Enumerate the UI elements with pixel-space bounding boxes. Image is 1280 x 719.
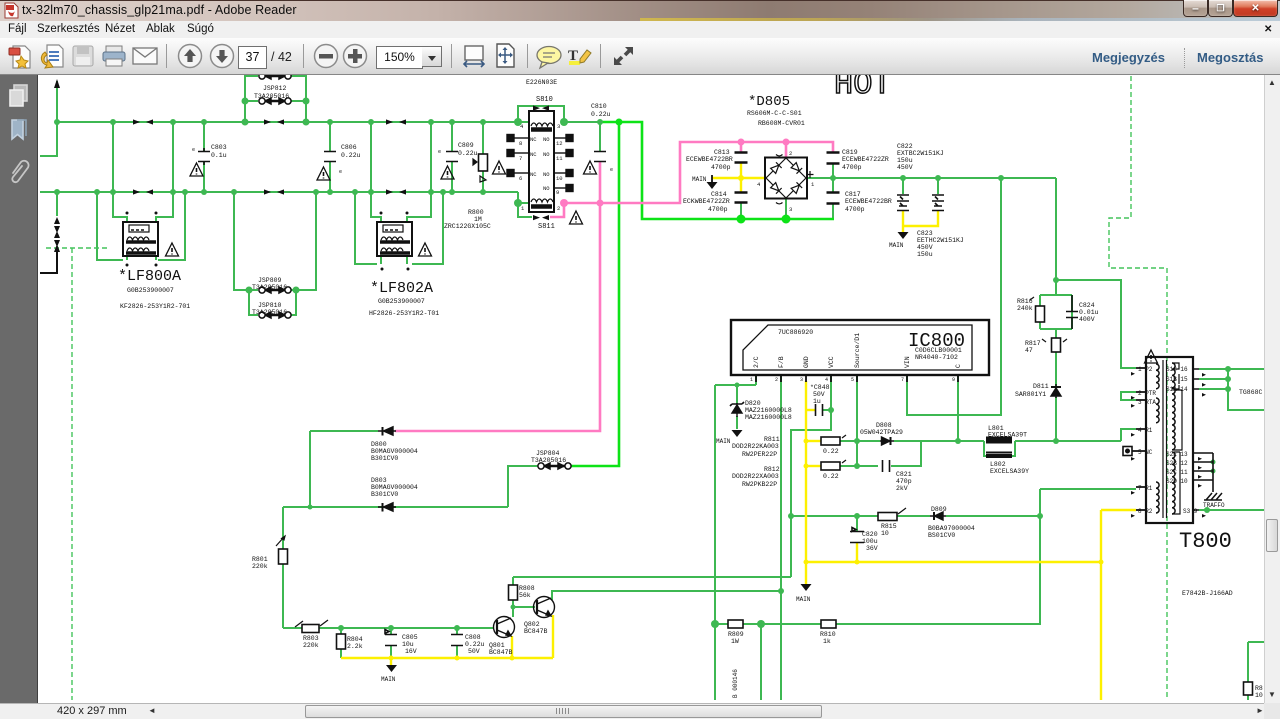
svg-text:MAIN: MAIN <box>381 676 396 683</box>
resistor R801 <box>279 549 288 564</box>
svg-text:0.22: 0.22 <box>823 473 839 480</box>
junction dots yellow <box>389 175 1104 661</box>
svg-text:S810: S810 <box>536 96 553 104</box>
wire pink C813 top leg <box>740 142 743 152</box>
svg-text:R800: R800 <box>468 209 484 216</box>
jumper JSP809 <box>259 287 291 293</box>
inductor L801 <box>986 438 1012 442</box>
svg-text:E7842B-J166AD: E7842B-J166AD <box>1182 590 1233 597</box>
svg-text:4700p: 4700p <box>711 164 731 171</box>
svg-text:JSP812: JSP812 <box>263 85 287 92</box>
svg-text:Q802: Q802 <box>524 621 540 628</box>
svg-text:9: 9 <box>952 377 955 383</box>
wire C803 leg <box>203 122 205 192</box>
wire FB feedback row <box>513 576 791 578</box>
svg-text:12: 12 <box>556 140 563 147</box>
wire VIN riser <box>907 178 1001 415</box>
svg-text:8 R2: 8 R2 <box>1138 508 1153 515</box>
svg-text:EXCELSA39Y: EXCELSA39Y <box>990 468 1029 475</box>
svg-text:JSP810: JSP810 <box>258 302 282 309</box>
svg-text:4700p: 4700p <box>842 164 862 171</box>
wire snubber row y516 <box>791 515 1040 517</box>
svg-text:0.22: 0.22 <box>823 448 839 455</box>
svg-text:7 R1: 7 R1 <box>1138 485 1153 492</box>
svg-text:3: 3 <box>557 123 560 130</box>
svg-text:C824: C824 <box>1079 302 1095 309</box>
svg-text:TRAFFO: TRAFFO <box>1203 502 1225 509</box>
jumper JSP804 <box>538 463 571 469</box>
relay S810 block <box>529 111 554 212</box>
capacitor C803 <box>198 148 210 165</box>
svg-text:ZRC122GX105C: ZRC122GX105C <box>444 223 491 230</box>
resistor R810 <box>821 620 836 628</box>
svg-text:JSP809: JSP809 <box>258 277 282 284</box>
svg-text:S2B 12: S2B 12 <box>1166 460 1188 467</box>
svg-text:C823: C823 <box>917 230 933 237</box>
svg-text:RW2PER22P: RW2PER22P <box>742 451 777 458</box>
svg-text:ECKWBE4722ZR: ECKWBE4722ZR <box>683 198 730 205</box>
wire T800 pin2/pin3 link <box>1121 392 1136 400</box>
svg-text:C0D6CLB00001: C0D6CLB00001 <box>915 347 962 354</box>
svg-text:NC: NC <box>530 171 537 178</box>
off-page black link bottom-left <box>40 250 57 273</box>
wire JSP804 to D803 net <box>508 466 538 507</box>
svg-text:1W: 1W <box>731 638 739 645</box>
svg-text:10u: 10u <box>402 641 414 648</box>
wire relay pin3 to C810 node <box>564 121 601 123</box>
svg-text:10: 10 <box>881 530 889 537</box>
IC800 pin stubs <box>756 375 958 382</box>
svg-text:2: 2 <box>775 377 778 383</box>
svg-text:1: 1 <box>811 181 815 188</box>
wire LF800A output box <box>97 192 185 260</box>
svg-text:6: 6 <box>519 175 522 182</box>
warning triangle S810 left <box>493 161 506 174</box>
wire pink relay pin2 bottom stub <box>550 203 564 217</box>
capacitor C819 <box>827 153 840 164</box>
svg-text:DOD2R22KA003: DOD2R22KA003 <box>732 443 779 450</box>
resistor R8xx bottom right <box>1244 682 1253 695</box>
wire IC pin2 F/B column <box>780 375 782 700</box>
jumper JSP810 <box>259 312 291 318</box>
svg-text:2: 2 <box>789 150 792 157</box>
filter LF800A symbol <box>123 222 158 256</box>
wire R801 column <box>282 507 284 628</box>
svg-text:C821: C821 <box>896 471 912 478</box>
svg-text:R809: R809 <box>728 631 744 638</box>
svg-text:240k: 240k <box>1017 305 1033 312</box>
svg-text:S811: S811 <box>538 223 555 231</box>
wire left feeder with top arrow <box>40 81 57 156</box>
svg-text:D820: D820 <box>745 400 761 407</box>
wire T800 sec pin15 row <box>1199 378 1228 380</box>
ground arrow MAIN (GND col) <box>801 584 812 591</box>
svg-text:50V: 50V <box>468 648 480 655</box>
resistor R800 <box>479 154 488 171</box>
wire R809/R810 row <box>715 623 821 625</box>
transformer pin tick arrows <box>1131 372 1206 518</box>
svg-text:100u: 100u <box>862 538 878 545</box>
svg-text:2: 2 <box>557 205 560 212</box>
svg-text:1k: 1k <box>823 638 831 645</box>
warning triangle C809 <box>441 166 454 179</box>
capacitor C810 <box>594 152 606 162</box>
svg-text:5 NC: 5 NC <box>1138 449 1153 456</box>
svg-text:C813: C813 <box>714 149 730 156</box>
svg-text:BC847B: BC847B <box>489 649 513 656</box>
svg-text:4: 4 <box>520 123 524 130</box>
svg-text:F/B: F/B <box>778 356 785 368</box>
svg-text:R8: R8 <box>1255 685 1263 692</box>
transformer T800 block <box>1146 357 1193 523</box>
wire C822 leg <box>902 178 904 194</box>
wire C848 right leg <box>823 409 831 411</box>
wire R803 row <box>283 628 494 658</box>
wire bridge output rail <box>808 177 1056 179</box>
svg-text:B0MAGV000004: B0MAGV000004 <box>371 484 418 491</box>
wire R808 branch <box>513 577 535 617</box>
wire C813/C814 mid legs <box>740 203 742 219</box>
svg-text:T3A205016: T3A205016 <box>252 309 287 316</box>
capacitor C814 <box>735 193 748 203</box>
svg-text:2 PTR: 2 PTR <box>1138 390 1156 397</box>
wire D820 leg <box>736 385 738 429</box>
svg-text:NC: NC <box>530 136 537 143</box>
bridge rectifier D805 <box>765 155 814 204</box>
svg-text:0.01u: 0.01u <box>1079 309 1099 316</box>
svg-text:C809: C809 <box>458 142 474 149</box>
wire C820 top leg <box>856 516 858 531</box>
svg-text:4700p: 4700p <box>708 206 728 213</box>
svg-text:S1C 16: S1C 16 <box>1166 366 1188 373</box>
wire Q802 collector riser <box>552 591 781 600</box>
svg-text:e: e <box>438 149 441 155</box>
svg-text:*C848: *C848 <box>810 384 830 391</box>
wire R816/C824 parallel box <box>1040 280 1072 338</box>
svg-text:R803: R803 <box>303 635 319 642</box>
transformer T800 windings <box>1156 360 1182 518</box>
svg-text:S3 9: S3 9 <box>1183 508 1198 515</box>
svg-text:0.22u: 0.22u <box>591 111 611 118</box>
wire IC VCC net <box>791 375 831 577</box>
transistor Q802 <box>534 597 555 618</box>
wire C806 leg <box>329 122 331 192</box>
warning triangle C803 <box>190 163 203 176</box>
wire x1040 riser <box>836 489 1040 624</box>
capacitor C820 <box>850 528 864 543</box>
svg-text:S2D 10: S2D 10 <box>1166 478 1188 485</box>
wire C819 lower leg <box>832 164 834 219</box>
svg-text:*D805: *D805 <box>748 94 790 110</box>
svg-text:400V: 400V <box>1079 316 1095 323</box>
svg-text:HOT: HOT <box>834 66 892 103</box>
svg-text:0.22u: 0.22u <box>341 152 361 159</box>
svg-text:TG868C: TG868C <box>1239 389 1263 396</box>
svg-text:BS01CV0: BS01CV0 <box>928 532 955 539</box>
svg-text:C819: C819 <box>842 149 858 156</box>
capacitor C821 <box>883 460 890 472</box>
svg-text:S1A 14: S1A 14 <box>1166 386 1188 393</box>
svg-text:3 RTA: 3 RTA <box>1138 399 1156 406</box>
ground arrow MAIN (bridge) <box>707 175 718 189</box>
svg-text:C822: C822 <box>897 143 913 150</box>
svg-text:4 R1: 4 R1 <box>1138 427 1153 434</box>
svg-text:50V: 50V <box>813 391 825 398</box>
svg-text:10: 10 <box>1255 692 1263 699</box>
svg-text:S1B 15: S1B 15 <box>1166 376 1188 383</box>
ground arrow MAIN (D820) <box>732 430 743 437</box>
svg-text:2kV: 2kV <box>896 485 908 492</box>
svg-text:2/C: 2/C <box>753 356 760 368</box>
junction dots pink <box>560 139 790 208</box>
warning triangle LF802A <box>419 243 432 256</box>
right scrollbar <box>1264 75 1280 703</box>
svg-text:1: 1 <box>521 205 525 212</box>
svg-text:47: 47 <box>1025 347 1033 354</box>
svg-text:EETHC2W151KJ: EETHC2W151KJ <box>917 237 964 244</box>
svg-text:9: 9 <box>556 189 559 196</box>
wire C823 leg <box>937 178 939 194</box>
svg-text:VIN: VIN <box>904 356 911 368</box>
transistor Q801 <box>494 617 515 638</box>
capacitor C809 <box>446 152 458 162</box>
svg-text:C806: C806 <box>341 144 357 151</box>
wire mains bus L (top) <box>57 121 529 123</box>
capacitor C806 <box>324 152 336 162</box>
resistor R815 <box>878 513 897 521</box>
svg-text:GND: GND <box>803 356 810 368</box>
svg-text:KF2826-253Y1R2-701: KF2826-253Y1R2-701 <box>120 303 190 310</box>
svg-text:B301CV0: B301CV0 <box>371 455 398 462</box>
svg-text:0.22u: 0.22u <box>458 150 478 157</box>
svg-text:S2C 11: S2C 11 <box>1166 469 1188 476</box>
svg-text:*LF802A: *LF802A <box>370 280 433 297</box>
diode D811 (vertical) <box>1051 384 1061 398</box>
wire R817 to D811 <box>1055 352 1057 441</box>
relay actuator arrows S810/S811 <box>533 106 549 221</box>
wire mains bus N (bottom) <box>40 191 518 193</box>
svg-text:R815: R815 <box>881 523 897 530</box>
svg-text:R808: R808 <box>519 585 535 592</box>
svg-text:C: C <box>955 364 962 368</box>
svg-text:EXCELSA39T: EXCELSA39T <box>988 432 1027 439</box>
capacitor C824 <box>1066 295 1078 329</box>
svg-text:470p: 470p <box>896 478 912 485</box>
svg-text:2.2k: 2.2k <box>347 643 363 650</box>
left sidebar <box>0 75 38 703</box>
svg-text:RW2PKB22P: RW2PKB22P <box>742 481 777 488</box>
transformer T800 right pin stubs and mid bracket <box>1193 369 1213 510</box>
diode D808 <box>880 437 894 445</box>
svg-text:NR4040-7102: NR4040-7102 <box>915 354 958 361</box>
toolbar <box>0 38 1280 75</box>
svg-text:MAIN: MAIN <box>889 242 904 249</box>
warning triangle S811 <box>570 211 583 224</box>
svg-text:0.22u: 0.22u <box>465 641 485 648</box>
svg-text:G0B253900007: G0B253900007 <box>378 298 425 305</box>
ground arrow MAIN (C805) <box>386 665 397 672</box>
warning triangle S810 right <box>584 161 597 174</box>
resistor R816 <box>1036 306 1045 322</box>
svg-text:JSP804: JSP804 <box>536 450 560 457</box>
svg-text:L802: L802 <box>990 461 1006 468</box>
svg-text:16V: 16V <box>405 648 417 655</box>
wire yellow GND column <box>805 381 807 584</box>
warning triangle C806 <box>317 167 330 180</box>
wire T800 sec pin14 row <box>1199 388 1228 390</box>
wire D803 row <box>283 506 508 508</box>
junction dots medium green <box>54 98 1231 632</box>
wire R811 output row <box>840 429 1136 441</box>
capacitor C822 (electrolytic) <box>897 195 909 211</box>
svg-text:1: 1 <box>750 377 753 383</box>
svg-text:NO: NO <box>543 151 550 158</box>
wire yellow R812 feed <box>806 465 821 467</box>
inductor L802 <box>986 453 1012 457</box>
svg-text:150u: 150u <box>897 157 913 164</box>
chassis ground TRAFFO <box>1204 493 1222 500</box>
svg-text:B0BA97000004: B0BA97000004 <box>928 525 975 532</box>
IC800 block <box>731 320 989 375</box>
warning triangle LF800A <box>166 243 179 256</box>
resistor R808 <box>509 585 518 600</box>
wire pink relay pin2 to bridge <box>564 142 833 203</box>
polarity dots LF802A <box>380 212 410 271</box>
wire R812/C821 row <box>840 441 921 466</box>
wire R800 leg <box>482 122 484 192</box>
wire yellow ground bus left <box>341 615 553 665</box>
svg-text:MAZ2160000L8: MAZ2160000L8 <box>745 414 792 421</box>
svg-text:220k: 220k <box>303 642 319 649</box>
svg-text:S2E 13: S2E 13 <box>1166 451 1188 458</box>
capacitor C817 <box>827 193 840 204</box>
wire yellow C820 bottom <box>856 543 858 562</box>
svg-text:ECEWBE4722ZR: ECEWBE4722ZR <box>842 156 889 163</box>
svg-text:1M: 1M <box>474 216 482 223</box>
wire sec bundle riser <box>1228 369 1264 410</box>
svg-text:T800: T800 <box>1179 529 1232 554</box>
resistor R803 <box>302 625 319 633</box>
capacitor C808 <box>451 635 463 646</box>
window title bar <box>0 0 1280 21</box>
svg-text:T3A205016: T3A205016 <box>252 284 287 291</box>
ground arrow MAIN (C822) <box>898 232 909 239</box>
wire yellow C822/C823 bottoms <box>903 211 938 232</box>
svg-text:R810: R810 <box>820 631 836 638</box>
svg-text:D803: D803 <box>371 477 387 484</box>
svg-text:B301CV0: B301CV0 <box>371 491 398 498</box>
svg-text:7UC886920: 7UC886920 <box>778 329 813 336</box>
svg-text:11: 11 <box>556 155 563 162</box>
power rating marks <box>276 159 1067 627</box>
wire bridge pin3 leg <box>785 199 787 219</box>
wire hot rail to R816 <box>1056 178 1136 368</box>
svg-text:C817: C817 <box>845 191 861 198</box>
wire pink bridge pin2 stub <box>785 142 788 158</box>
svg-text:0.1u: 0.1u <box>211 152 227 159</box>
svg-text:R804: R804 <box>347 636 363 643</box>
wire T800 pin1 stub <box>1121 367 1136 369</box>
svg-text:C805: C805 <box>402 634 418 641</box>
filter LF802A symbol <box>377 222 412 256</box>
svg-text:R817: R817 <box>1025 340 1041 347</box>
svg-text:e: e <box>339 169 342 175</box>
wire yellow C848 left leg <box>806 409 815 411</box>
svg-text:C810: C810 <box>591 103 607 110</box>
svg-text:D800: D800 <box>371 441 387 448</box>
wire bus N into relay pin1 <box>518 192 529 203</box>
wire x761 drop <box>760 624 762 700</box>
diode D809 <box>930 512 946 520</box>
resistor R811 <box>821 437 840 445</box>
svg-text:4700p: 4700p <box>845 206 865 213</box>
svg-text:VCC: VCC <box>828 356 835 368</box>
svg-text:e: e <box>192 147 195 153</box>
svg-text:10: 10 <box>556 175 563 182</box>
svg-text:D811: D811 <box>1033 383 1049 390</box>
wire yellow ground bus right <box>806 510 1136 700</box>
wire JSP812 legs <box>245 76 306 122</box>
transformer T800 left pin stubs <box>1132 368 1146 510</box>
wire yellow R811 feed <box>806 440 821 442</box>
wire yellow MAIN to bridge pin4 <box>712 177 764 179</box>
svg-text:05W042TPA29: 05W042TPA29 <box>860 429 903 436</box>
svg-text:R811: R811 <box>764 436 780 443</box>
transformer pin5 NC pad <box>1123 447 1132 456</box>
menu bar <box>0 21 1280 38</box>
wire IC pin5 source column <box>856 375 858 466</box>
svg-text:150u: 150u <box>917 251 933 258</box>
svg-text:SAR801Y1: SAR801Y1 <box>1015 391 1046 398</box>
svg-text:D809: D809 <box>931 506 947 513</box>
svg-text:*LF800A: *LF800A <box>118 268 181 285</box>
svg-text:1u: 1u <box>813 398 821 405</box>
svg-text:450V: 450V <box>897 164 913 171</box>
svg-text:B 000146: B 000146 <box>732 669 739 698</box>
svg-text:220k: 220k <box>252 563 268 570</box>
wire bus N stub down at x57 <box>56 192 58 216</box>
svg-text:R801: R801 <box>252 556 268 563</box>
svg-text:G0B253900007: G0B253900007 <box>127 287 174 294</box>
wire relay pin1 bottom stub <box>518 203 532 217</box>
svg-text:C808: C808 <box>465 634 481 641</box>
diode D803 <box>378 503 396 511</box>
svg-text:RB608M-CVR01: RB608M-CVR01 <box>758 120 805 127</box>
status bar <box>0 703 1280 719</box>
svg-text:NO: NO <box>543 185 550 192</box>
capacitor C813 <box>735 153 748 163</box>
svg-text:8: 8 <box>519 140 522 147</box>
wire LF802A input legs <box>371 122 431 222</box>
svg-text:5: 5 <box>851 377 854 383</box>
junction dots bright green <box>616 119 791 224</box>
svg-text:7: 7 <box>519 155 522 162</box>
resistor R809 <box>728 620 743 628</box>
svg-text:HF2826-253Y1R2-T01: HF2826-253Y1R2-T01 <box>369 310 439 317</box>
svg-text:ECEWBE4722BR: ECEWBE4722BR <box>845 198 892 205</box>
svg-text:MAIN: MAIN <box>796 596 811 603</box>
wire yellow C813/C814 junction <box>740 163 742 192</box>
wire bright drop to JSP804 <box>570 122 619 466</box>
svg-text:BC847B: BC847B <box>524 628 548 635</box>
svg-text:MAIN: MAIN <box>716 438 731 445</box>
svg-text:C803: C803 <box>211 144 227 151</box>
wire dashed zone boundary left <box>46 248 108 700</box>
relay S810 side pins <box>507 135 573 192</box>
svg-text:7: 7 <box>901 377 904 383</box>
svg-text:MAZ2160000L8: MAZ2160000L8 <box>745 407 792 414</box>
resistor R817 <box>1052 338 1061 352</box>
